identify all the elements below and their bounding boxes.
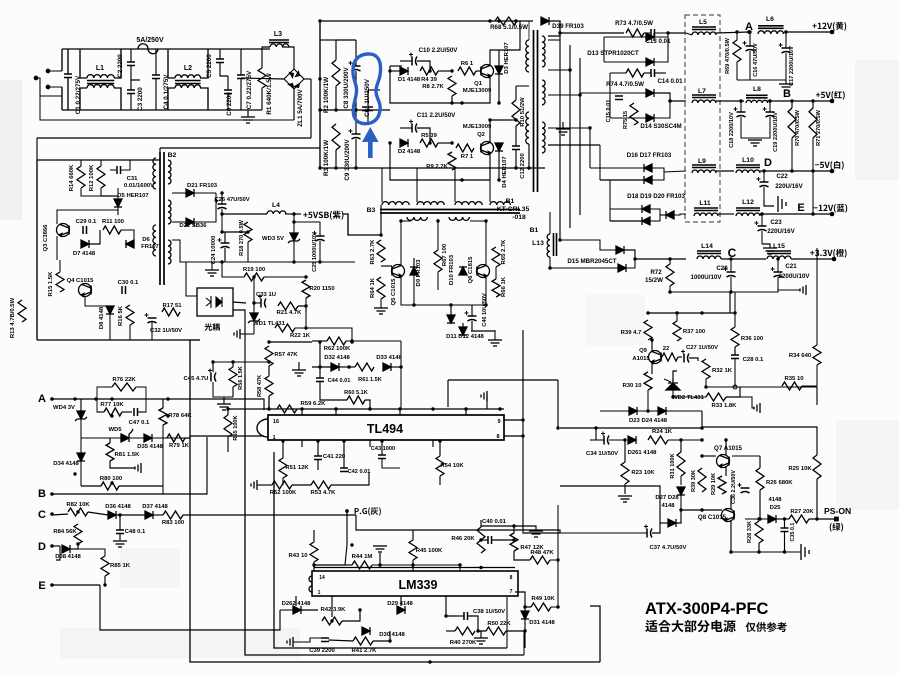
- capacitor C12: [512, 146, 520, 150]
- wire R43 top: [313, 530, 315, 542]
- svg-text:R85 1K: R85 1K: [110, 563, 131, 569]
- svg-text:R2 100K/1W: R2 100K/1W: [323, 77, 330, 113]
- resistor R46: [477, 527, 485, 553]
- wire Q5 emit: [401, 277, 451, 305]
- capacitor C01: [362, 107, 373, 111]
- wire lm top rail: [314, 564, 345, 566]
- wire R2 top rail: [320, 39, 336, 41]
- resistor R51: [279, 458, 287, 478]
- wire R49 r: [551, 560, 558, 607]
- wire C2b: [131, 66, 140, 81]
- ground R23: [618, 496, 632, 502]
- resistor R3: [332, 124, 340, 150]
- wire D5 bot: [117, 207, 119, 215]
- capacitor C26: [215, 199, 227, 209]
- svg-text:R1 640K/1.5W: R1 640K/1.5W: [266, 73, 273, 114]
- svg-text:Q7 A1015: Q7 A1015: [714, 445, 743, 452]
- svg-text:C9 330U/200V: C9 330U/200V: [344, 139, 351, 181]
- wire R8 bot: [451, 96, 453, 103]
- resistor R2: [332, 60, 340, 86]
- annotation blue arrow: [362, 127, 379, 158]
- svg-text:R62 100K: R62 100K: [324, 346, 351, 352]
- svg-text:C32 1U/50V: C32 1U/50V: [150, 328, 182, 334]
- IC U1 TL494 box: [268, 415, 504, 440]
- capacitor C27: [681, 350, 689, 363]
- ground pson: [801, 544, 809, 560]
- resistor R25: [813, 455, 821, 479]
- terminal PS-ON square: [834, 517, 839, 522]
- resistor R74: [626, 69, 644, 77]
- wire gsec stub: [562, 122, 564, 129]
- svg-text:R20 1150: R20 1150: [309, 286, 335, 292]
- wire cell1 top: [390, 65, 402, 67]
- svg-text:D3 HER107: D3 HER107: [504, 42, 510, 74]
- wire pson gnd rail: [731, 551, 801, 553]
- capacitor C47: [134, 408, 138, 416]
- svg-text:R74 4.7/0.5W: R74 4.7/0.5W: [606, 81, 644, 88]
- wire Q6 emit: [485, 277, 487, 305]
- wire R1 top: [261, 49, 263, 68]
- svg-text:D10 FR103: D10 FR103: [449, 254, 455, 285]
- resistor R44: [352, 561, 372, 569]
- wire R5 out: [438, 142, 452, 144]
- capacitor C44: [316, 378, 324, 382]
- wire pson top rail: [560, 427, 702, 429]
- diode D11: [447, 315, 455, 323]
- inductor L11: [694, 208, 718, 216]
- svg-text:ATX-300P4-PFC: ATX-300P4-PFC: [645, 600, 769, 618]
- wire stby links3: [151, 322, 153, 340]
- svg-text:C43 1000: C43 1000: [371, 446, 395, 452]
- junction pin row dots: [300, 407, 501, 410]
- diode D5: [114, 199, 122, 207]
- wire C28 link: [734, 347, 736, 355]
- wire gc45: [223, 397, 225, 404]
- wire 5vsb cap2: [319, 241, 321, 262]
- svg-text:ZL1 5A/700V: ZL1 5A/700V: [297, 88, 304, 126]
- wire 5vsb cap: [294, 222, 320, 236]
- wire gnd filter: [247, 110, 249, 117]
- wire R12 top: [100, 160, 102, 166]
- wire lm bot v1: [331, 596, 333, 617]
- svg-text:WD4 3V: WD4 3V: [53, 405, 75, 411]
- wire c44 bot: [320, 382, 347, 401]
- inductor L1: [87, 75, 114, 88]
- resistor 22: [662, 353, 678, 361]
- resistor R69: [733, 40, 741, 62]
- wire R67 top: [437, 219, 439, 250]
- resistor R12: [97, 166, 105, 188]
- wire Q7 coll: [725, 440, 727, 455]
- wire route C out: [356, 515, 560, 533]
- svg-text:C46 10U/50V: C46 10U/50V: [482, 293, 488, 327]
- svg-text:C12 2200: C12 2200: [520, 153, 526, 179]
- node open circle: [733, 385, 737, 389]
- svg-text:R16 5K: R16 5K: [118, 305, 124, 326]
- wire R48 l: [514, 551, 530, 560]
- wire lm bot v3: [446, 596, 455, 616]
- wire gtl431: [240, 333, 254, 335]
- wire A mid2: [122, 411, 132, 413]
- diode D4: [495, 143, 503, 151]
- junction left dots: [73, 397, 169, 586]
- svg-text:1000U/10V: 1000U/10V: [691, 274, 723, 281]
- svg-text:C42 0.01: C42 0.01: [348, 469, 371, 475]
- resistor R9: [448, 152, 456, 170]
- capacitor C23: [755, 221, 767, 231]
- svg-text:D: D: [38, 541, 46, 553]
- wire R78 top: [162, 399, 164, 408]
- svg-text:8: 8: [510, 575, 513, 581]
- svg-text:C37 4.7U/50V: C37 4.7U/50V: [649, 545, 686, 551]
- svg-text:C33 1U: C33 1U: [256, 292, 276, 298]
- resistor R67: [434, 250, 442, 272]
- resistor R27: [789, 515, 809, 523]
- terminal PG dot: [345, 509, 349, 513]
- wire R26 link: [732, 455, 760, 457]
- wire D15 in2: [550, 267, 618, 269]
- wire C48 top: [119, 515, 121, 530]
- wire bridge bottom: [293, 89, 295, 120]
- wire B3 stub3: [454, 168, 456, 202]
- wire R69 w: [736, 32, 738, 40]
- svg-text:R66 1K: R66 1K: [501, 276, 507, 297]
- svg-text:R18 270 0.5W: R18 270 0.5W: [239, 219, 245, 255]
- svg-text:C40 0.01: C40 0.01: [482, 519, 507, 525]
- resistor R84: [74, 524, 82, 544]
- pin bumps LM339: [309, 576, 312, 592]
- svg-text:-018: -018: [512, 214, 526, 221]
- diode D23: [629, 407, 637, 415]
- wire C8 top: [355, 40, 357, 66]
- svg-text:MJE13009: MJE13009: [463, 88, 492, 94]
- resistor R59: [277, 405, 297, 413]
- wire C16 w: [749, 32, 751, 46]
- svg-text:C45 4.7U: C45 4.7U: [184, 376, 209, 382]
- wire L7 out: [716, 100, 744, 102]
- wire pin stub a: [301, 409, 303, 415]
- wire R54 top: [439, 441, 441, 456]
- svg-text:D15 MBR2045CT: D15 MBR2045CT: [567, 258, 616, 265]
- wire gfb: [726, 397, 754, 408]
- svg-text:E: E: [38, 580, 45, 592]
- svg-text:R22 1K: R22 1K: [290, 333, 311, 339]
- svg-text:D23 D24 4148: D23 D24 4148: [629, 418, 668, 424]
- wire D27 bot: [680, 495, 682, 510]
- resistor R62: [327, 337, 346, 345]
- junction fb dots: [646, 311, 736, 412]
- wire R40 l: [446, 630, 455, 632]
- svg-text:D5 HER107: D5 HER107: [117, 193, 149, 199]
- resistor R1: [258, 68, 266, 88]
- wire R34 top: [816, 248, 818, 345]
- svg-text:R53 4.7K: R53 4.7K: [311, 490, 337, 496]
- ground C39: [287, 637, 293, 647]
- svg-text:R14 660K: R14 660K: [69, 164, 75, 191]
- wire R27 out: [809, 518, 834, 520]
- wire D14 in1: [580, 92, 646, 94]
- wire D31 bot: [524, 619, 526, 631]
- wire L4 in: [222, 213, 267, 215]
- svg-text:D22 SB36: D22 SB36: [179, 223, 207, 229]
- wire above LM339: [314, 567, 515, 569]
- wire r60 out: [365, 400, 370, 409]
- wire R45 top: [412, 530, 414, 540]
- ground R81: [135, 463, 141, 473]
- svg-text:C17 2200U/16V: C17 2200U/16V: [789, 46, 795, 86]
- svg-text:2200U/10V: 2200U/10V: [779, 273, 811, 280]
- resistor R37: [673, 321, 681, 341]
- diode D38: [62, 545, 70, 553]
- svg-text:D33 4148: D33 4148: [376, 355, 402, 361]
- svg-text:R24 1K: R24 1K: [652, 429, 673, 435]
- diode D33: [383, 363, 391, 371]
- svg-text:C48 0.1: C48 0.1: [125, 529, 146, 535]
- diode D14b: [646, 114, 654, 122]
- svg-text:R59 6.2K: R59 6.2K: [301, 401, 327, 407]
- capacitor C13: [651, 29, 655, 37]
- diode D2: [400, 139, 408, 147]
- wire C40 l: [481, 539, 488, 541]
- wire D262 l: [280, 609, 293, 611]
- wire C43 bot: [382, 459, 400, 469]
- wire Q7 emit: [725, 467, 727, 476]
- resistor R30: [644, 372, 652, 390]
- wire C5b: [220, 63, 228, 77]
- svg-text:PS-ON: PS-ON: [824, 506, 851, 516]
- svg-text:R69 470/0.5W: R69 470/0.5W: [725, 37, 731, 73]
- wire lm bot v2: [400, 596, 402, 606]
- resistor R29: [718, 476, 726, 494]
- capacitor C24: [218, 238, 230, 248]
- resistor R79: [167, 434, 185, 442]
- wire 12v gnd rail: [737, 79, 786, 81]
- wire C42 top: [343, 441, 345, 468]
- inductor L14: [697, 251, 721, 259]
- svg-text:R37 100: R37 100: [683, 329, 706, 335]
- transistor Q9: [649, 351, 662, 364]
- resistor R6: [458, 67, 476, 75]
- inductor L4: [267, 211, 286, 214]
- inductor L7: [692, 95, 716, 103]
- wire tl431 mesh: [254, 302, 261, 304]
- wire D18 out: [650, 209, 660, 221]
- svg-text:C8 330U/200V: C8 330U/200V: [343, 67, 350, 109]
- wire Q3 e: [56, 236, 58, 260]
- svg-text:R64 1K: R64 1K: [370, 277, 376, 298]
- svg-text:L3: L3: [274, 31, 282, 38]
- wire R56 top: [232, 362, 234, 367]
- wire -12 out: [760, 213, 832, 215]
- wire g33 rail: [670, 290, 800, 292]
- wire long left 2: [245, 375, 524, 655]
- svg-text:C6 2200: C6 2200: [226, 92, 233, 116]
- wire C1 bottom: [67, 78, 69, 111]
- diode D6: [126, 240, 134, 248]
- wire return 148: [160, 147, 320, 149]
- svg-text:C18 2200/10V: C18 2200/10V: [729, 112, 735, 148]
- wire sec tap c: [548, 94, 580, 96]
- wire C28 bot: [734, 359, 736, 388]
- svg-text:R65 2.7K: R65 2.7K: [501, 239, 507, 265]
- svg-text:D37 4148: D37 4148: [142, 504, 168, 510]
- wire R80 r: [119, 485, 163, 487]
- resistor R5: [420, 139, 438, 147]
- resistor R18: [244, 222, 252, 242]
- svg-text:L14: L14: [701, 243, 713, 250]
- wire D28 path: [660, 522, 668, 524]
- resistor R71: [809, 108, 817, 138]
- wire gR47: [514, 526, 536, 531]
- svg-text:R39 4.7: R39 4.7: [621, 330, 642, 336]
- diode D36: [108, 511, 116, 519]
- wire R55 l: [228, 408, 268, 410]
- svg-text:R31 100K: R31 100K: [670, 453, 676, 478]
- svg-text:R35 10: R35 10: [785, 376, 805, 382]
- wire stby mesh1: [121, 230, 134, 244]
- wire L1 a: [80, 49, 87, 78]
- resistor R60: [347, 396, 365, 404]
- wire R72 top: [669, 259, 671, 264]
- svg-text:D29 4148: D29 4148: [387, 601, 413, 607]
- wire B3 stub4: [489, 168, 491, 202]
- resistor R77: [104, 408, 122, 416]
- diode D1: [400, 67, 408, 75]
- wire C10 leads: [400, 60, 412, 62]
- wire L2 a: [168, 49, 175, 78]
- svg-text:R56 1.5K: R56 1.5K: [238, 366, 244, 390]
- wire C12 bot: [515, 150, 517, 169]
- capacitor C10: [409, 53, 417, 66]
- wire C18 b: [741, 117, 755, 138]
- svg-text:R44 1M: R44 1M: [352, 554, 373, 560]
- wire D19 in: [610, 220, 642, 222]
- svg-text:C30 0.1: C30 0.1: [118, 280, 139, 286]
- wire lm bot mesh4: [342, 610, 360, 621]
- wire C24 v2: [224, 248, 226, 262]
- capacitor C14: [651, 69, 655, 77]
- wire C17 b: [785, 53, 787, 80]
- IC U2 LM339 box: [312, 571, 518, 596]
- wire bridge top: [282, 47, 294, 69]
- wire sec b2 4: [194, 193, 216, 222]
- wire tl431 mesh4: [253, 321, 255, 334]
- wire R1 bot: [261, 88, 263, 110]
- wire node B2a: [101, 195, 118, 197]
- resistor R15: [56, 272, 64, 292]
- wire C35 top: [784, 519, 786, 528]
- svg-text:C16 47U/50V: C16 47U/50V: [753, 43, 759, 77]
- svg-text:D261 4148: D261 4148: [628, 450, 658, 456]
- svg-text:Q1: Q1: [474, 81, 483, 87]
- svg-text:Q2: Q2: [477, 132, 486, 138]
- svg-text:C3 2200: C3 2200: [137, 87, 144, 111]
- transistor Q8: [722, 509, 735, 522]
- resistor R38: [698, 468, 706, 492]
- wire B3 stub2: [416, 168, 418, 202]
- wire long left 3: [274, 452, 507, 648]
- wire R19 l: [222, 262, 244, 277]
- wire R65 link: [495, 267, 497, 279]
- ground tl431: [234, 329, 240, 339]
- wire Q9 emit: [651, 363, 653, 374]
- svg-text:D9 FR103: D9 FR103: [416, 259, 422, 287]
- svg-text:C1 0.22/275V: C1 0.22/275V: [75, 75, 82, 114]
- wire C18 w: [740, 101, 742, 112]
- svg-text:L12: L12: [742, 199, 754, 206]
- svg-text:220U/16V: 220U/16V: [767, 228, 795, 235]
- wire R31 top: [680, 440, 682, 452]
- wire R51 top: [282, 441, 284, 458]
- wire R23 bot: [624, 484, 626, 494]
- svg-text:L13: L13: [532, 240, 544, 247]
- wire C6b: [227, 94, 229, 111]
- wire Q8 base: [702, 509, 722, 511]
- wire D23 rail: [600, 410, 629, 412]
- wire b2 sec tap: [172, 240, 204, 262]
- wire C21 b: [777, 277, 779, 292]
- svg-text:MJE13009: MJE13009: [463, 124, 492, 130]
- transistor Q5: [392, 265, 405, 278]
- wire sec tap d: [548, 127, 590, 129]
- wire C1 top: [67, 49, 69, 74]
- wire 5vsb gnd rail: [204, 261, 355, 263]
- svg-text:E: E: [797, 202, 804, 214]
- wire D16 in: [590, 167, 644, 169]
- ground filter: [241, 117, 255, 123]
- wire C24 v: [224, 232, 226, 243]
- wire L4 out: [285, 213, 301, 215]
- wire mid route 3: [523, 452, 560, 533]
- svg-text:4148: 4148: [768, 497, 782, 503]
- wire C37 r: [652, 510, 660, 533]
- diode D17: [644, 176, 652, 184]
- wire R85 top: [78, 549, 105, 556]
- wire mid node: [510, 119, 516, 121]
- wire long left 1: [190, 340, 600, 662]
- capacitor C33: [258, 295, 266, 308]
- svg-text:D6: D6: [142, 237, 150, 243]
- wire D17 in: [600, 179, 644, 181]
- svg-text:C23: C23: [770, 219, 782, 226]
- svg-text:D4 HER107: D4 HER107: [502, 156, 508, 188]
- svg-text:R12 100K: R12 100K: [89, 164, 95, 191]
- svg-text:B: B: [38, 488, 46, 500]
- wire top rail: [320, 20, 533, 22]
- resistor R22: [275, 324, 295, 332]
- wire cell1 frame: [390, 66, 462, 103]
- wire C38 r: [468, 616, 487, 631]
- wire R24 out: [668, 439, 702, 441]
- wire D13 net: [604, 36, 646, 38]
- junction 5vsb dots: [220, 191, 321, 329]
- svg-text:R23 10K: R23 10K: [631, 470, 655, 476]
- wire HV bottom rail: [320, 167, 545, 169]
- svg-text:Q3 C3866: Q3 C3866: [43, 224, 49, 252]
- wire -12 join2: [674, 214, 686, 215]
- wire Q9 coll: [651, 340, 653, 351]
- wire C16 b: [749, 51, 751, 80]
- wire WD4 top: [80, 399, 82, 411]
- diode D15b: [618, 264, 626, 272]
- wire pin stub d: [465, 409, 467, 415]
- svg-text:R60 5.1K: R60 5.1K: [344, 390, 368, 396]
- fuse 5A/250V: [138, 44, 158, 54]
- wire Q2 emit: [462, 154, 490, 180]
- wire L11 out: [718, 213, 734, 215]
- junction outputs dots: [548, 30, 814, 293]
- svg-text:D30 4148: D30 4148: [379, 632, 405, 638]
